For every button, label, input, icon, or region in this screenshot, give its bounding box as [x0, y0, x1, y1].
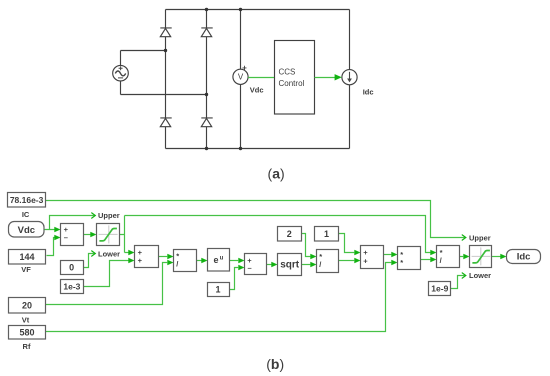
svg-text:Vt: Vt — [22, 316, 30, 325]
svg-text:VF: VF — [21, 265, 31, 274]
svg-text:CCS: CCS — [279, 68, 296, 77]
svg-text:e: e — [213, 255, 218, 265]
svg-text:0: 0 — [69, 263, 74, 273]
svg-text:+: + — [363, 256, 368, 265]
svg-text:sqrt: sqrt — [280, 260, 300, 271]
svg-text:u: u — [220, 256, 224, 262]
svg-text:Upper: Upper — [98, 211, 120, 220]
svg-text:(b): (b) — [266, 356, 284, 372]
svg-text:1e-3: 1e-3 — [63, 282, 80, 292]
svg-text:580: 580 — [19, 327, 34, 337]
svg-text:Control: Control — [279, 79, 305, 88]
svg-text:+: + — [138, 256, 143, 265]
svg-text:IC: IC — [22, 210, 30, 219]
svg-text:Vdc: Vdc — [18, 225, 35, 236]
svg-text:+: + — [242, 63, 247, 72]
svg-text:144: 144 — [19, 252, 34, 262]
svg-text:Idc: Idc — [517, 252, 531, 263]
svg-text:Rf: Rf — [23, 342, 31, 351]
svg-text:Lower: Lower — [98, 249, 120, 258]
svg-text:1e-9: 1e-9 — [431, 283, 448, 293]
svg-text:*: * — [400, 258, 403, 267]
svg-text:78.16e-3: 78.16e-3 — [10, 195, 44, 205]
svg-text:Upper: Upper — [469, 233, 491, 242]
svg-text:Idc: Idc — [363, 88, 374, 97]
svg-text:(a): (a) — [268, 165, 285, 181]
svg-text:Vdc: Vdc — [250, 86, 264, 95]
svg-text:1: 1 — [215, 285, 220, 295]
svg-text:Lower: Lower — [469, 271, 491, 280]
svg-text:V: V — [238, 73, 244, 82]
svg-text:2: 2 — [287, 229, 292, 239]
svg-text:1: 1 — [324, 229, 329, 239]
svg-text:–: – — [248, 264, 252, 273]
svg-text:–: – — [64, 233, 68, 242]
svg-text:20: 20 — [22, 300, 32, 310]
